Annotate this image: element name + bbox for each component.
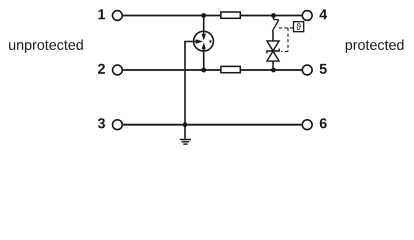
junction dot line3/ground wire (183, 122, 188, 127)
label unprotected (9, 39, 83, 52)
gas discharge tube F1 circle (194, 31, 214, 51)
thermal disconnect switch blade (272, 20, 278, 31)
wire from GDT left electrode to ground rail (185, 42, 194, 139)
GDT left electrode arrow (194, 39, 204, 43)
thermal sensor box (294, 22, 304, 32)
junction dot line2/TVS branch (271, 68, 276, 73)
dashed link to suppressor (281, 50, 288, 52)
wire line 3 (terminal 3 to terminal 6) (123, 124, 302, 126)
terminal 1 circle (113, 11, 123, 21)
terminal 1 number (98, 9, 105, 19)
ground symbol (180, 140, 191, 145)
GDT gas-filled dot (209, 40, 211, 42)
wire GDT vertical lower (gas tube to line2) (203, 46, 205, 70)
suppressor diode V1 top triangle (267, 41, 279, 51)
junction dot line2/GDT (201, 68, 206, 73)
dashed link blade to thermal box (279, 27, 294, 29)
terminal 5 number (320, 64, 327, 74)
thermal disconnect switch tick (274, 19, 279, 21)
terminal 2 circle (113, 65, 123, 75)
suppressor diode zener bar (267, 49, 279, 54)
label protected (346, 39, 404, 52)
wire suppressor to line2 (272, 61, 274, 70)
terminal 6 circle (302, 120, 312, 130)
junction dot line1/TVS branch (271, 13, 276, 18)
wire line 2 (terminal 2 to terminal 5) (123, 69, 302, 71)
wire line 1 (terminal 1 to terminal 4) (123, 15, 302, 17)
terminal 3 number (98, 118, 105, 128)
terminal 3 circle (113, 120, 123, 130)
junction dot line1/GDT (201, 13, 206, 18)
dashed link vertical (287, 28, 289, 52)
thermal sensor theta glyph (296, 23, 301, 30)
GDT bottom electrode arrow (202, 43, 206, 52)
terminal 4 circle (302, 11, 312, 21)
GDT top electrode arrow (202, 31, 206, 40)
wire GDT vertical upper (line1 to gas tube) (203, 16, 205, 38)
terminal 4 number (319, 9, 327, 19)
terminal 5 circle (302, 65, 312, 75)
terminal 6 number (320, 118, 327, 128)
resistor R1 (line 1) (221, 12, 240, 18)
terminal 2 number (98, 64, 105, 74)
thermal disconnect switch stub (273, 16, 275, 20)
suppressor diode V1 bottom triangle (267, 51, 279, 61)
resistor R2 (line 2) (221, 66, 240, 72)
wire switch to suppressor (272, 31, 274, 41)
